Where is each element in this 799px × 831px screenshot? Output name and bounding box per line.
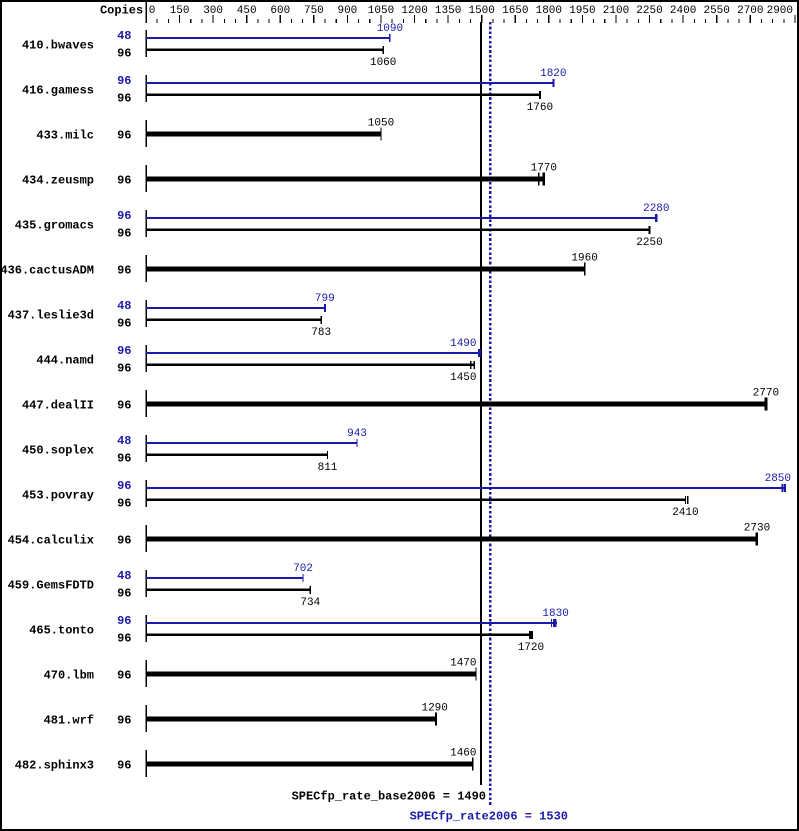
svg-text:1950: 1950	[569, 5, 595, 17]
svg-text:465.tonto: 465.tonto	[29, 623, 94, 637]
svg-text:481.wrf: 481.wrf	[44, 713, 94, 727]
svg-text:96: 96	[117, 533, 131, 547]
svg-text:96: 96	[117, 209, 131, 223]
svg-text:1830: 1830	[542, 608, 568, 620]
svg-text:799: 799	[315, 293, 335, 305]
svg-text:470.lbm: 470.lbm	[44, 668, 94, 682]
svg-text:1960: 1960	[571, 253, 597, 265]
svg-text:96: 96	[117, 92, 131, 106]
svg-text:96: 96	[117, 128, 131, 142]
svg-text:1720: 1720	[518, 642, 544, 654]
svg-text:1760: 1760	[527, 102, 553, 114]
svg-text:416.gamess: 416.gamess	[22, 83, 94, 97]
svg-text:444.namd: 444.namd	[36, 353, 94, 367]
svg-text:2850: 2850	[765, 473, 791, 485]
svg-text:900: 900	[337, 5, 357, 17]
svg-text:1490: 1490	[450, 338, 476, 350]
svg-text:48: 48	[117, 434, 131, 448]
svg-text:96: 96	[117, 587, 131, 601]
svg-text:453.povray: 453.povray	[22, 488, 94, 502]
svg-text:96: 96	[117, 227, 131, 241]
svg-text:96: 96	[117, 47, 131, 61]
svg-text:1460: 1460	[450, 748, 476, 760]
svg-text:1060: 1060	[370, 57, 396, 69]
svg-text:SPECfp_rate2006 = 1530: SPECfp_rate2006 = 1530	[410, 810, 568, 824]
svg-text:96: 96	[117, 452, 131, 466]
svg-text:600: 600	[270, 5, 290, 17]
svg-text:2400: 2400	[670, 5, 696, 17]
svg-text:2250: 2250	[636, 237, 662, 249]
svg-text:96: 96	[117, 344, 131, 358]
svg-text:96: 96	[117, 173, 131, 187]
svg-text:1800: 1800	[536, 5, 562, 17]
svg-text:1050: 1050	[368, 5, 394, 17]
svg-text:1820: 1820	[540, 68, 566, 80]
svg-text:2280: 2280	[643, 203, 669, 215]
svg-text:96: 96	[117, 632, 131, 646]
svg-text:1470: 1470	[450, 658, 476, 670]
svg-text:943: 943	[347, 428, 367, 440]
svg-text:1770: 1770	[531, 163, 557, 175]
svg-text:96: 96	[117, 479, 131, 493]
svg-text:300: 300	[203, 5, 223, 17]
svg-text:48: 48	[117, 299, 131, 313]
svg-text:SPECfp_rate_base2006 = 1490: SPECfp_rate_base2006 = 1490	[292, 790, 486, 804]
svg-text:1290: 1290	[421, 703, 447, 715]
svg-text:1050: 1050	[368, 118, 394, 130]
svg-text:96: 96	[117, 362, 131, 376]
svg-text:454.calculix: 454.calculix	[8, 533, 94, 547]
svg-text:48: 48	[117, 569, 131, 583]
svg-text:96: 96	[117, 263, 131, 277]
svg-text:1500: 1500	[468, 5, 494, 17]
svg-text:437.leslie3d: 437.leslie3d	[8, 308, 94, 322]
svg-text:96: 96	[117, 713, 131, 727]
svg-text:96: 96	[117, 668, 131, 682]
svg-text:2550: 2550	[703, 5, 729, 17]
svg-text:2410: 2410	[672, 507, 698, 519]
svg-text:482.sphinx3: 482.sphinx3	[15, 758, 94, 772]
svg-text:436.cactusADM: 436.cactusADM	[0, 263, 94, 277]
svg-text:450: 450	[237, 5, 257, 17]
svg-text:734: 734	[300, 597, 320, 609]
svg-text:96: 96	[117, 614, 131, 628]
svg-text:0: 0	[149, 5, 156, 17]
svg-text:96: 96	[117, 398, 131, 412]
svg-text:2730: 2730	[744, 523, 770, 535]
svg-text:702: 702	[293, 563, 313, 575]
svg-text:1350: 1350	[435, 5, 461, 17]
svg-text:1450: 1450	[450, 372, 476, 384]
svg-text:48: 48	[117, 29, 131, 43]
svg-text:96: 96	[117, 317, 131, 331]
svg-text:2250: 2250	[636, 5, 662, 17]
svg-text:2700: 2700	[737, 5, 763, 17]
svg-text:1090: 1090	[377, 23, 403, 35]
svg-text:434.zeusmp: 434.zeusmp	[22, 173, 94, 187]
svg-text:96: 96	[117, 758, 131, 772]
svg-text:96: 96	[117, 497, 131, 511]
svg-text:2770: 2770	[753, 388, 779, 400]
svg-text:435.gromacs: 435.gromacs	[15, 218, 94, 232]
svg-text:150: 150	[170, 5, 190, 17]
svg-text:Copies: Copies	[100, 3, 143, 17]
svg-text:410.bwaves: 410.bwaves	[22, 38, 94, 52]
svg-text:783: 783	[311, 327, 331, 339]
svg-text:447.dealII: 447.dealII	[22, 398, 94, 412]
svg-text:2100: 2100	[603, 5, 629, 17]
svg-text:450.soplex: 450.soplex	[22, 443, 94, 457]
svg-text:96: 96	[117, 74, 131, 88]
svg-text:750: 750	[304, 5, 324, 17]
svg-text:1200: 1200	[401, 5, 427, 17]
svg-text:811: 811	[318, 462, 338, 474]
svg-text:459.GemsFDTD: 459.GemsFDTD	[8, 578, 94, 592]
svg-text:2900: 2900	[767, 5, 793, 17]
svg-text:433.milc: 433.milc	[36, 128, 94, 142]
svg-text:1650: 1650	[502, 5, 528, 17]
